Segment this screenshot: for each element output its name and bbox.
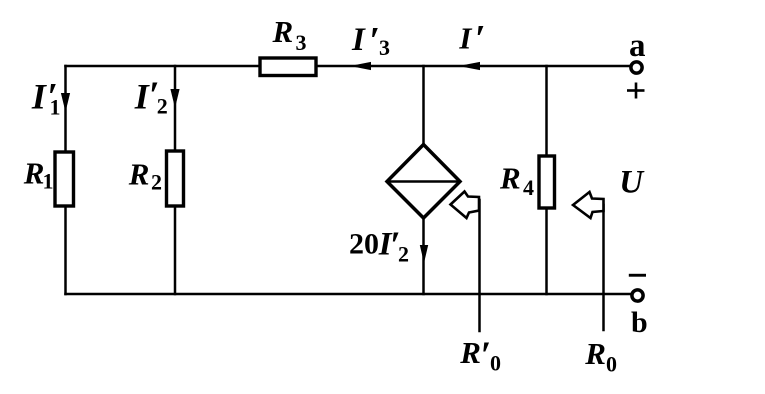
svg-text:R: R bbox=[23, 156, 45, 191]
svg-text:3: 3 bbox=[296, 30, 307, 55]
svg-text:2: 2 bbox=[398, 242, 409, 267]
svg-text:R: R bbox=[272, 14, 294, 49]
wire left branch R1 bbox=[64, 66, 67, 294]
wire top horizontal bbox=[66, 65, 631, 68]
probe arrow R0 (hollow) bbox=[573, 192, 604, 218]
terminal a bbox=[631, 62, 642, 73]
svg-text:I: I bbox=[458, 21, 472, 56]
svg-text:R: R bbox=[459, 335, 481, 370]
svg-text:I: I bbox=[351, 22, 366, 58]
probe arrow R'0 (hollow) bbox=[451, 192, 480, 219]
dependent current source diamond 20I'2 bbox=[387, 145, 460, 219]
wire bottom horizontal bbox=[66, 293, 632, 296]
label minus bbox=[629, 274, 646, 277]
svg-text:1: 1 bbox=[50, 95, 61, 120]
wire probe R0 bbox=[602, 205, 605, 330]
svg-text:2: 2 bbox=[157, 94, 168, 119]
svg-text:1: 1 bbox=[43, 169, 54, 194]
svg-text:I: I bbox=[31, 77, 48, 117]
svg-text:4: 4 bbox=[523, 175, 534, 200]
arrowhead current I'3 bbox=[350, 62, 371, 70]
svg-text:b: b bbox=[631, 306, 648, 339]
wire branch R4 bbox=[545, 66, 548, 294]
svg-text:R: R bbox=[584, 336, 606, 371]
arrowhead current I'1 bbox=[61, 93, 70, 112]
svg-text:R: R bbox=[499, 161, 521, 196]
resistor R1 bbox=[55, 152, 74, 206]
resistor R2 bbox=[167, 151, 184, 206]
resistor R4 bbox=[539, 156, 555, 208]
arrowhead current I'2 bbox=[170, 89, 179, 108]
arrowhead source current 20I'2 bbox=[420, 245, 428, 263]
svg-text:2: 2 bbox=[151, 170, 162, 195]
wire branch dependent source bbox=[422, 66, 425, 294]
label plus bbox=[627, 89, 645, 92]
wire branch R2 bbox=[174, 66, 177, 294]
svg-text:20: 20 bbox=[349, 228, 379, 261]
svg-text:3: 3 bbox=[379, 35, 390, 60]
resistor R3 bbox=[260, 58, 316, 76]
wire probe R'0 bbox=[478, 200, 481, 331]
svg-text:0: 0 bbox=[490, 351, 501, 376]
svg-text:0: 0 bbox=[606, 352, 617, 377]
svg-text:U: U bbox=[619, 165, 645, 201]
arrowhead current I' bbox=[459, 62, 481, 70]
svg-text:′: ′ bbox=[475, 18, 486, 60]
svg-text:R: R bbox=[128, 157, 150, 192]
svg-text:a: a bbox=[629, 28, 646, 64]
terminal b bbox=[632, 290, 643, 301]
